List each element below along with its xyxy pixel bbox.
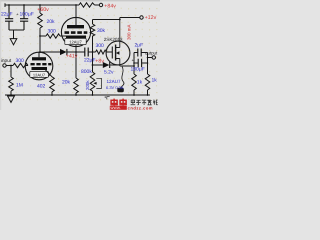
svg-text:cndzz.com: cndzz.com (128, 106, 153, 111)
wire plate node V1 (39, 28, 41, 52)
wire chain to diode (40, 51, 60, 53)
wire node G down (92, 52, 94, 65)
capacitor 22uF top-left (5, 5, 13, 30)
node output terminal (152, 56, 155, 59)
wire cathode V1 to 402 (46, 70, 53, 77)
ground bottom rail (8, 96, 15, 102)
tube V1 cathode bar (32, 67, 48, 70)
wire +12v rail (120, 17, 140, 19)
svg-text:402: 402 (37, 84, 46, 90)
svg-text:1k: 1k (137, 80, 143, 86)
capacitor 22uF coupling (85, 48, 88, 57)
svg-text:300: 300 (48, 29, 57, 35)
tube V1 plate bar (32, 57, 46, 60)
junction dots (8, 4, 148, 96)
wire diode to cap (67, 51, 84, 53)
Q1 gate bar (111, 47, 113, 59)
tube V2 plate bar (67, 25, 84, 28)
wire grid2 tap (40, 35, 46, 37)
heater callout blob (117, 88, 124, 92)
wire output stub (148, 57, 153, 59)
svg-text:5.2v: 5.2v (104, 70, 114, 76)
svg-text:180μF: 180μF (131, 67, 145, 73)
svg-text:WWW.: WWW. (110, 106, 121, 110)
tube V2 label box (65, 38, 86, 44)
svg-text:300 mA: 300 mA (127, 24, 132, 40)
wire source node (120, 65, 134, 67)
resistor 402 (50, 77, 55, 95)
Q1 drain lead (116, 18, 120, 48)
tube V1 grid dashes (31, 63, 52, 65)
tube V2 12AU7 envelope (61, 17, 90, 46)
wire plate V2 to rail (75, 5, 77, 25)
wire cap to node G (88, 51, 95, 53)
svg-text:100μF: 100μF (20, 11, 34, 17)
tube V1 12AU7 envelope (25, 52, 53, 80)
Q1 source lead (116, 59, 120, 67)
transistor Q1 2SK2013 (106, 41, 130, 65)
svg-text:12AU7: 12AU7 (107, 79, 121, 84)
Q1 channel bar (115, 45, 117, 61)
svg-text:22μF: 22μF (84, 58, 96, 64)
wire heater callout (121, 67, 124, 88)
wire plate V1 (38, 52, 40, 57)
svg-text:1k: 1k (152, 78, 158, 84)
svg-text:+8v: +8v (95, 59, 104, 65)
resistor 1k output bleed (145, 63, 150, 95)
resistor top dropping (79, 3, 95, 7)
watermark logo (105, 96, 158, 110)
diode D1 (60, 49, 67, 55)
capacitor 2uF output (134, 49, 148, 57)
svg-text:input: input (1, 58, 12, 64)
diode D2 (103, 62, 110, 68)
wire 300k to +12v line (93, 19, 120, 21)
ground left caps (10, 39, 17, 45)
wire to diode D2 (93, 64, 103, 66)
capacitor 180uF output (134, 59, 148, 67)
svg-text:2μF: 2μF (135, 43, 144, 49)
capacitor 100uF top-left (20, 5, 28, 30)
resistor 1M grid leak (9, 66, 14, 96)
wire input (6, 65, 13, 67)
svg-text:6.3V 0.3A: 6.3V 0.3A (106, 85, 124, 90)
wire to +84v terminal (95, 4, 100, 6)
trimmer arrow (93, 82, 96, 85)
voltage labels red (37, 4, 156, 65)
svg-text:800k: 800k (81, 69, 92, 75)
value labels blue (1, 11, 157, 90)
svg-text:output: output (145, 50, 158, 55)
resistor 300 grid V2 (46, 34, 66, 38)
wire gate entry (106, 51, 112, 53)
svg-text:2SK2013: 2SK2013 (104, 37, 123, 42)
background (0, 0, 160, 110)
resistor 20k cathode V2 (74, 52, 79, 95)
port labels (1, 12, 158, 64)
node input terminal (3, 64, 6, 67)
wire caps left join (133, 53, 135, 67)
trimmer wiper loop (96, 78, 101, 88)
svg-text:+41v: +41v (66, 54, 78, 60)
svg-text:+84v: +84v (104, 4, 116, 10)
svg-text:200k: 200k (85, 80, 90, 90)
svg-text:12AU7: 12AU7 (69, 39, 82, 44)
Q1 arrow (116, 51, 120, 54)
wire caps right join (147, 53, 149, 64)
tube V1 label box (30, 71, 49, 77)
resistor trimmer 800k (90, 65, 95, 95)
resistor 1k source load (132, 66, 137, 95)
node +12v terminal (140, 16, 143, 19)
wire bottom rail (5, 94, 150, 96)
svg-text:20k: 20k (47, 19, 56, 25)
svg-text:20k: 20k (62, 80, 71, 86)
svg-text:1M: 1M (16, 83, 23, 89)
wire D2 to source line (110, 64, 120, 66)
wire top rail +60v (5, 3, 79, 7)
resistor 20k left (38, 5, 43, 28)
wire cathode V2 down (75, 39, 77, 53)
resistor 300 input (13, 63, 28, 67)
wire caps join (9, 30, 24, 39)
svg-text:300: 300 (16, 58, 25, 64)
svg-text:12AU7: 12AU7 (33, 72, 46, 77)
svg-text:+60v: +60v (37, 7, 49, 13)
tube V2 grid dashes (65, 31, 88, 34)
resistor 300k bias upper (90, 20, 95, 53)
tube V2 cathode bar (66, 36, 86, 39)
svg-text:300: 300 (96, 43, 105, 49)
svg-text:+12v: +12v (145, 15, 157, 21)
svg-text:30k: 30k (97, 28, 106, 34)
resistor 300 gate (96, 50, 107, 54)
node +84v terminal (99, 3, 102, 6)
svg-text:22μF: 22μF (1, 11, 13, 17)
